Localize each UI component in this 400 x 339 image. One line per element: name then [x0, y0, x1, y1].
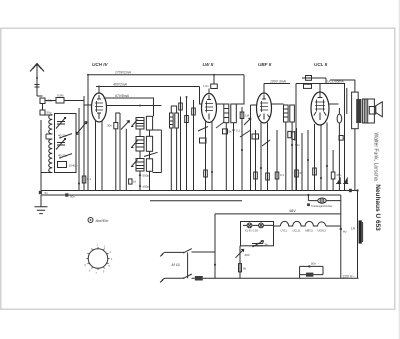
svg-text:600: 600 — [245, 253, 250, 257]
svg-text:UY11: UY11 — [281, 229, 288, 233]
svg-text:M Gl.: M Gl. — [172, 263, 181, 267]
svg-text:500p: 500p — [143, 174, 150, 178]
svg-text:40-70p: 40-70p — [58, 154, 67, 158]
svg-text:40V/2mA: 40V/2mA — [113, 82, 128, 86]
svg-text:170V/2mA: 170V/2mA — [115, 71, 132, 75]
svg-text:30k: 30k — [107, 124, 112, 128]
svg-text:Trockengleichrichter: Trockengleichrichter — [311, 205, 333, 208]
svg-text:0,1: 0,1 — [280, 173, 284, 177]
svg-text:LW II: LW II — [203, 62, 214, 67]
svg-text:50n: 50n — [70, 195, 75, 199]
svg-text:190V 3mA: 190V 3mA — [270, 80, 287, 84]
svg-text:UCL/85mA: UCL/85mA — [327, 80, 344, 84]
svg-text:50p: 50p — [47, 111, 52, 115]
svg-text:5n: 5n — [45, 191, 49, 195]
svg-text:Walter Funk, Lorscha: Walter Funk, Lorscha — [373, 133, 379, 181]
svg-text:Ant/Ein: Ant/Ein — [95, 218, 110, 223]
svg-text:±50p: ±50p — [47, 99, 54, 103]
svg-text:Neuhaus U 653: Neuhaus U 653 — [374, 184, 381, 231]
svg-text:220 V~: 220 V~ — [343, 275, 356, 279]
svg-text:1,5n: 1,5n — [203, 84, 209, 88]
svg-text:48V: 48V — [289, 209, 296, 213]
svg-text:Hy: Hy — [343, 230, 347, 234]
svg-text:50n: 50n — [311, 262, 316, 266]
svg-text:50n: 50n — [295, 143, 300, 147]
svg-text:25n: 25n — [337, 173, 342, 177]
svg-text:UBF II: UBF II — [258, 62, 272, 67]
svg-text:KL 6V 0,3A: KL 6V 0,3A — [245, 229, 258, 233]
svg-text:67V/8mA: 67V/8mA — [115, 94, 130, 98]
svg-text:0,5M: 0,5M — [57, 94, 64, 98]
svg-text:UCL11: UCL11 — [293, 229, 301, 233]
svg-text:5n: 5n — [300, 171, 304, 175]
svg-text:0,1: 0,1 — [236, 129, 240, 133]
svg-text:10-40p: 10-40p — [69, 164, 78, 168]
svg-text:40-70p: 40-70p — [58, 134, 67, 138]
svg-text:UBF11: UBF11 — [305, 229, 313, 233]
svg-text:0,1: 0,1 — [87, 177, 91, 181]
svg-text:UCL II: UCL II — [314, 62, 328, 67]
svg-text:1M: 1M — [245, 114, 250, 118]
svg-text:±50p: ±50p — [143, 185, 150, 189]
svg-text:UCH IV: UCH IV — [92, 62, 109, 67]
svg-text:UCH11: UCH11 — [318, 229, 327, 233]
